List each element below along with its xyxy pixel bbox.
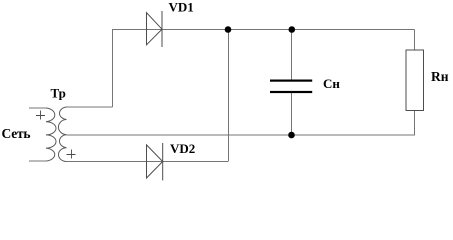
svg-text:VD2: VD2 bbox=[170, 141, 195, 156]
svg-text:Тр: Тр bbox=[51, 86, 66, 101]
capacitor Cn top plate bbox=[270, 80, 312, 82]
svg-text:Rн: Rн bbox=[431, 69, 449, 84]
wire: primary bottom lead bbox=[29, 160, 46, 162]
capacitor Cn bottom plate bbox=[270, 91, 312, 93]
svg-text:VD1: VD1 bbox=[169, 0, 194, 14]
wire: VD2 return vertical up to top rail bbox=[228, 30, 230, 162]
svg-text:Сн: Сн bbox=[323, 76, 340, 91]
diode VD1 bbox=[147, 11, 163, 47]
svg-text:Сеть: Сеть bbox=[2, 126, 31, 141]
wire: resistor bottom lead bbox=[414, 111, 416, 136]
wire: left vertical from secondary top lead up to VD1 rail bbox=[112, 30, 114, 108]
wire: center-tap rail bbox=[67, 134, 415, 136]
resistor Rn body bbox=[406, 50, 424, 111]
junction dot: VD2 return joins top rail bbox=[225, 26, 232, 33]
wire: resistor top lead bbox=[414, 30, 416, 51]
wire: primary top lead bbox=[29, 107, 46, 109]
wire: secondary top lead bbox=[67, 106, 113, 108]
wire: secondary bottom lead through VD2 bbox=[67, 161, 229, 163]
polarity plus sign (secondary bottom) bbox=[67, 150, 76, 159]
wire: top positive rail bbox=[112, 29, 415, 31]
junction dot: capacitor top bbox=[289, 26, 296, 33]
transformer Tp secondary winding bbox=[58, 107, 66, 162]
wire: capacitor top lead bbox=[291, 30, 293, 80]
transformer Tp primary winding bbox=[46, 108, 56, 161]
diode VD2 bbox=[147, 143, 163, 180]
junction dot: capacitor bottom bbox=[288, 132, 295, 139]
wire: capacitor bottom lead bbox=[291, 93, 293, 135]
polarity plus sign (primary top) bbox=[36, 111, 45, 120]
